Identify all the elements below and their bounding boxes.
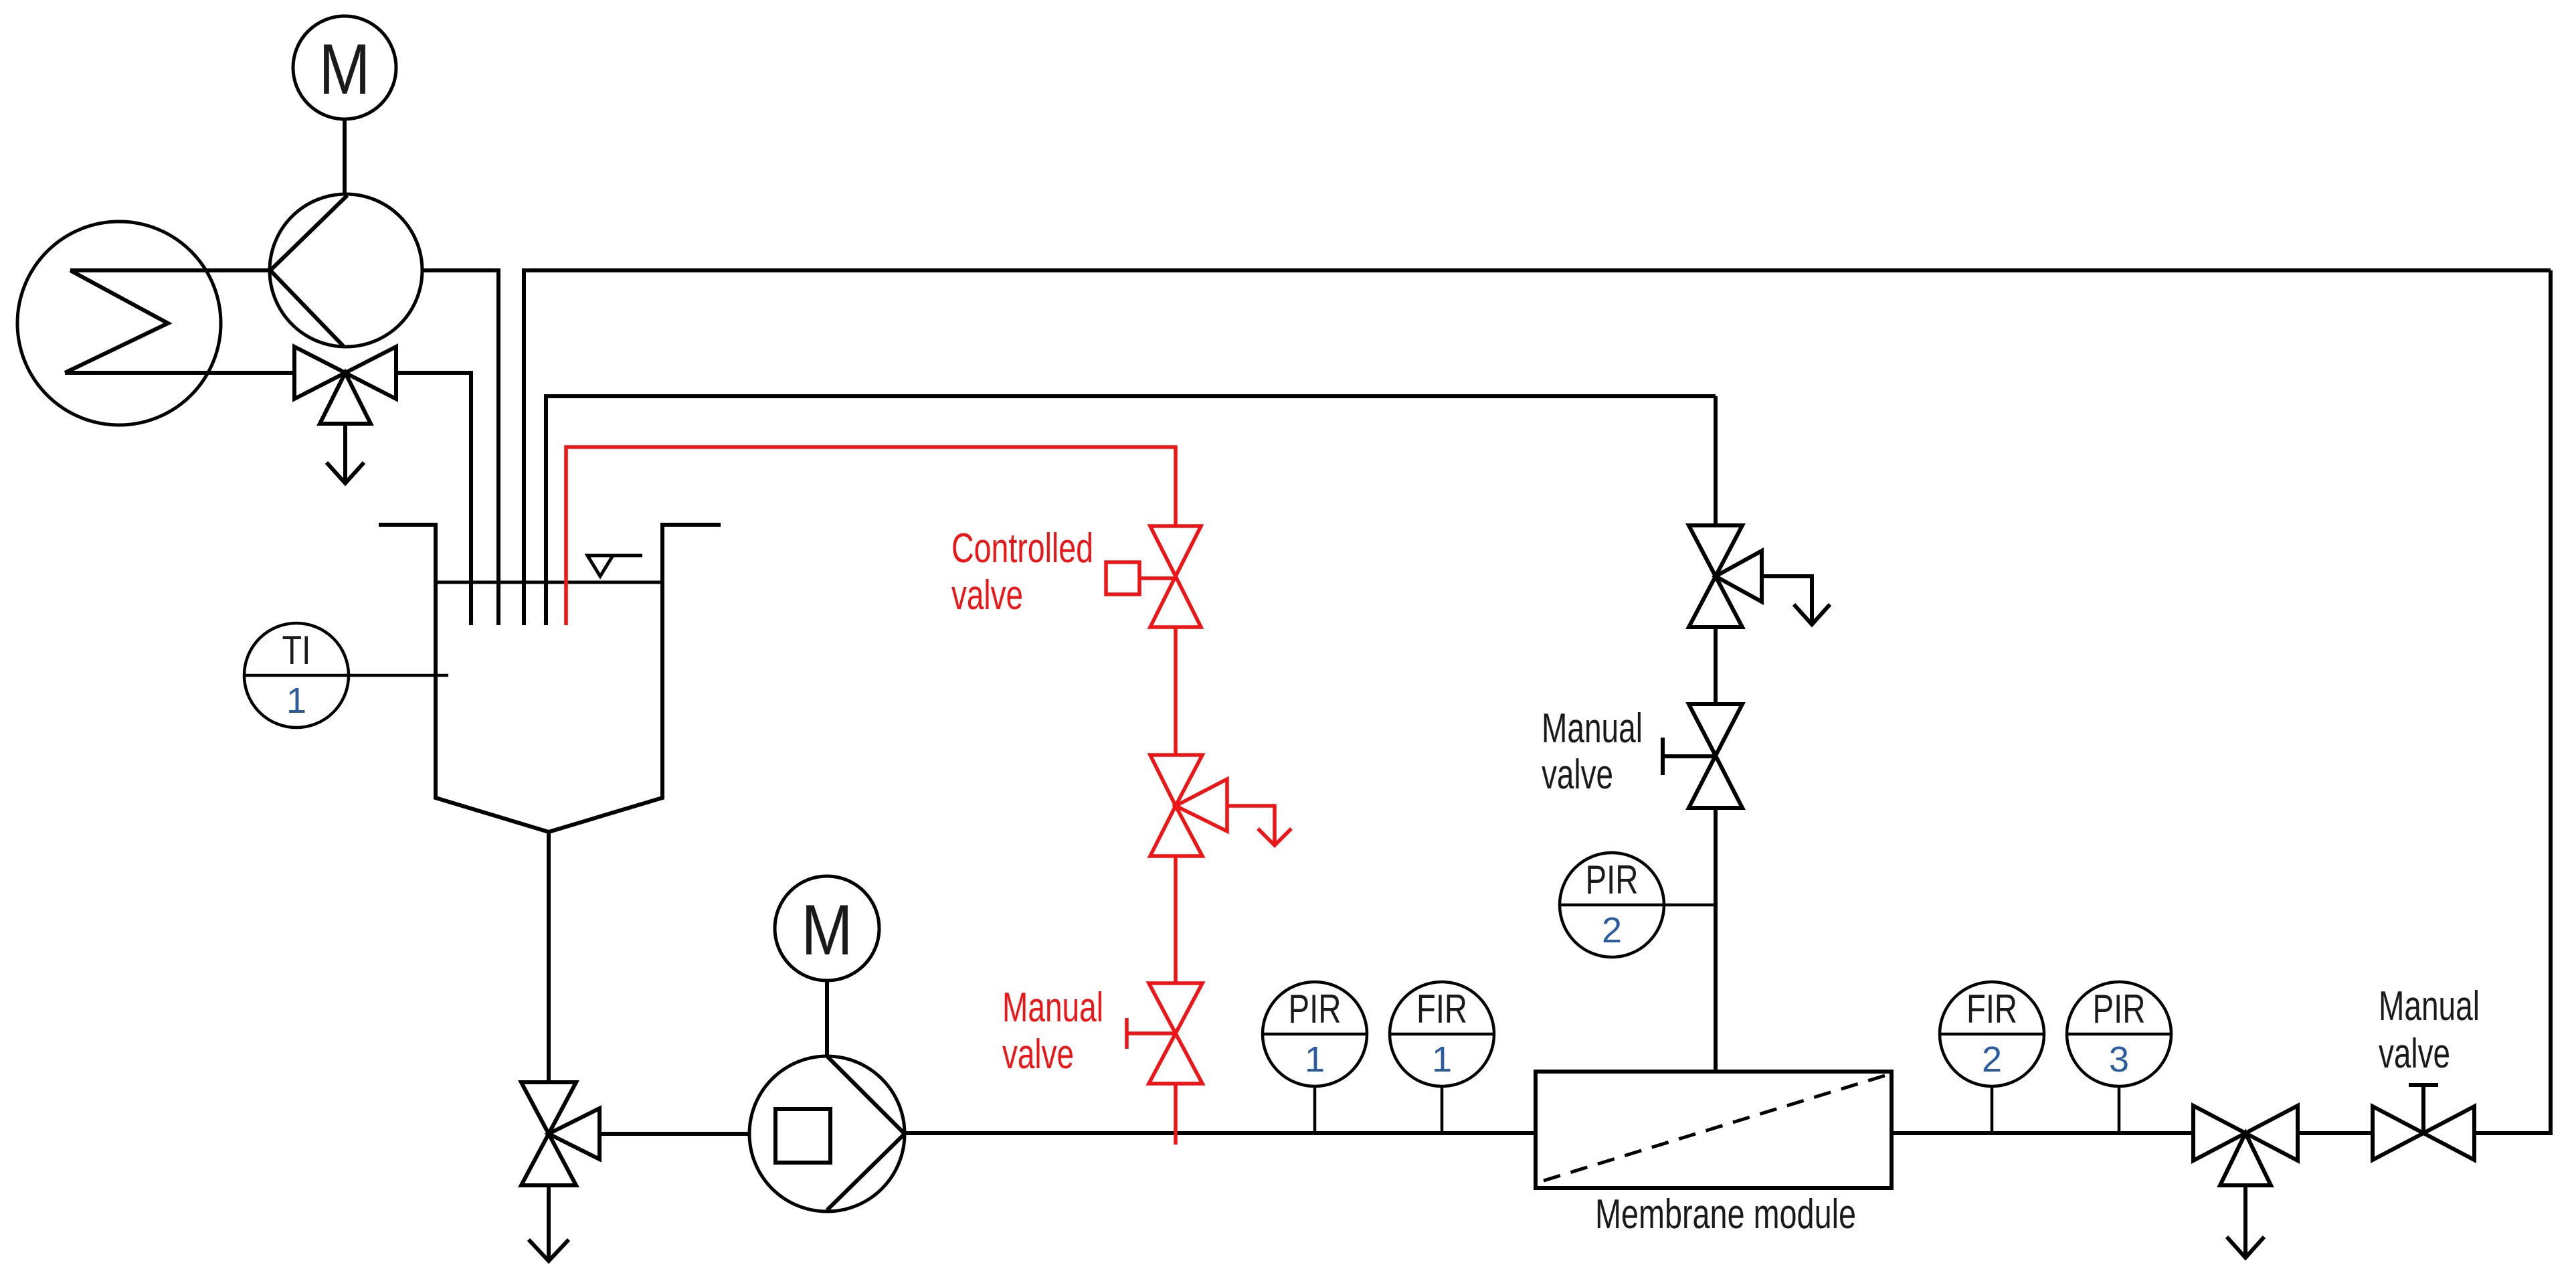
svg-text:valve: valve <box>2379 1031 2450 1077</box>
instrument TI 1 circle <box>244 623 349 728</box>
pump P1 circle <box>270 194 422 347</box>
wire M1 to P1 <box>343 119 347 195</box>
wire FIR 2 stem <box>1991 1086 1994 1131</box>
tank T1 left wall with lip <box>379 525 549 832</box>
instrument TI 1 divider and lead to tank <box>244 674 448 677</box>
svg-text:1: 1 <box>286 681 306 721</box>
wire PIR 1 stem <box>1313 1086 1317 1131</box>
svg-text:3: 3 <box>2109 1039 2129 1080</box>
red manual valve V3 bowtie <box>1149 983 1202 1084</box>
svg-text:TI: TI <box>282 628 311 673</box>
3-way valve V1 bowtie <box>294 347 396 399</box>
heat exchanger E1 circle <box>17 222 221 425</box>
svg-text:valve: valve <box>1002 1031 1074 1078</box>
wire PIR 3 stem <box>2118 1086 2121 1131</box>
3-way valve V1 drain triangle <box>320 373 371 424</box>
svg-text:PIR: PIR <box>2093 987 2146 1031</box>
3-way valve V6 drain arrow <box>2243 1185 2247 1257</box>
wire HX bottom to valve V1 <box>65 371 294 375</box>
pump P1 impeller triangle <box>270 195 347 346</box>
3-way valve V6 drain triangle <box>2220 1133 2271 1185</box>
svg-text:2: 2 <box>1602 910 1622 950</box>
pump P2 circle <box>749 1056 905 1211</box>
svg-text:valve: valve <box>1542 752 1613 798</box>
3-way valve V8 side triangle <box>1716 551 1762 602</box>
pump P2 square <box>775 1109 830 1163</box>
wire main process line P2 to membrane module <box>905 1131 1536 1135</box>
3-way valve V2 bowtie <box>521 1082 576 1185</box>
svg-text:FIR: FIR <box>1966 987 2017 1031</box>
wire P1 outlet to tank dip tube 2 <box>422 270 498 625</box>
svg-text:FIR: FIR <box>1416 987 1467 1031</box>
svg-text:valve: valve <box>951 572 1023 618</box>
3-way valve V6 bowtie <box>2193 1106 2298 1161</box>
svg-text:PIR: PIR <box>1586 857 1639 902</box>
motor M2 circle <box>775 876 879 981</box>
controlled valve V4 actuator link <box>1139 576 1176 580</box>
membrane module dashed membrane <box>1544 1076 1885 1181</box>
wire retentate return line to tank dip tube 4 <box>546 396 1716 625</box>
3-way valve V1 drain arrow <box>343 424 347 483</box>
instrument PIR 3 divider <box>2067 1033 2171 1036</box>
wire V1 side port to tank dip tube 1 <box>396 373 471 625</box>
3-way valve V8 bowtie <box>1689 525 1742 627</box>
tank T1 liquid level line <box>436 581 662 584</box>
wire M2 to P2 <box>825 981 829 1057</box>
svg-text:Membrane module: Membrane module <box>1595 1191 1856 1238</box>
membrane module body <box>1536 1072 1892 1188</box>
instrument PIR 2 circle <box>1560 853 1664 957</box>
red wire V3 to main line <box>1174 1084 1178 1145</box>
svg-text:Manual: Manual <box>1542 705 1643 752</box>
manual valve V9 bowtie <box>1689 704 1742 808</box>
svg-text:1: 1 <box>1305 1039 1325 1080</box>
red wire V4 to V5 <box>1174 627 1178 755</box>
instrument PIR 3 circle <box>2067 982 2171 1086</box>
controlled valve V4 bowtie <box>1150 526 1201 627</box>
3-way valve V2 drain arrow <box>547 1185 551 1260</box>
manual valve V7 handle <box>2421 1085 2425 1133</box>
instrument FIR 1 circle <box>1390 982 1494 1086</box>
wire tank outlet down to valve V2 <box>547 832 551 1082</box>
wire V2 to pump P2 <box>600 1132 750 1136</box>
red 3-way valve V5 side triangle <box>1176 779 1227 831</box>
wire V8 to manual valve V9 <box>1714 627 1718 704</box>
controlled valve V4 actuator square <box>1106 562 1139 594</box>
wire V7 to right riser <box>2474 270 2551 1133</box>
wire HX top to pump P1 <box>70 268 270 272</box>
svg-text:2: 2 <box>1982 1039 2002 1080</box>
heat exchanger E1 coil chevron <box>65 270 168 373</box>
motor M1 circle <box>293 16 396 119</box>
instrument PIR 1 divider <box>1263 1033 1367 1036</box>
svg-text:Manual: Manual <box>1002 985 1103 1031</box>
3-way valve V2 side triangle <box>549 1108 600 1159</box>
svg-text:1: 1 <box>1432 1039 1452 1080</box>
svg-text:M: M <box>319 29 371 109</box>
3-way valve V8 drain arrow <box>1762 576 1812 623</box>
wire return corner down to valve V8 <box>1714 396 1718 525</box>
svg-text:Manual: Manual <box>2379 983 2480 1029</box>
wire V6 to manual valve V7 <box>2298 1131 2373 1135</box>
red 3-way valve V5 drain arrow <box>1227 806 1275 845</box>
manual valve V7 bowtie <box>2373 1106 2474 1160</box>
wire top return line from right side into tank dip tube 3 <box>524 270 2551 625</box>
red wire V5 to manual valve V3 <box>1174 856 1178 983</box>
tank T1 level symbol <box>587 554 642 558</box>
red 3-way valve V5 bowtie <box>1150 755 1202 856</box>
svg-text:M: M <box>802 890 853 970</box>
red manual valve V3 handle <box>1125 1018 1129 1049</box>
instrument PIR 2 divider and lead <box>1560 904 1716 907</box>
svg-text:Controlled: Controlled <box>951 525 1093 572</box>
instrument FIR 1 divider <box>1390 1033 1494 1036</box>
svg-text:PIR: PIR <box>1289 987 1342 1031</box>
pump P2 impeller triangle <box>827 1057 905 1210</box>
manual valve V9 handle <box>1661 738 1665 775</box>
instrument PIR 1 circle <box>1263 982 1367 1086</box>
tank T1 right wall with lip <box>549 525 721 832</box>
instrument FIR 2 divider <box>1940 1033 2044 1036</box>
wire membrane outlet to valve V6 <box>1892 1131 2193 1135</box>
red flush line group <box>566 447 1291 1145</box>
wire FIR 1 stem <box>1441 1086 1444 1131</box>
instrument FIR 2 circle <box>1940 982 2044 1086</box>
wire membrane feed side vertical from valve V9 <box>1714 808 1718 1072</box>
red wire from tank dip tube 5 to controlled valve V4 <box>566 447 1176 625</box>
